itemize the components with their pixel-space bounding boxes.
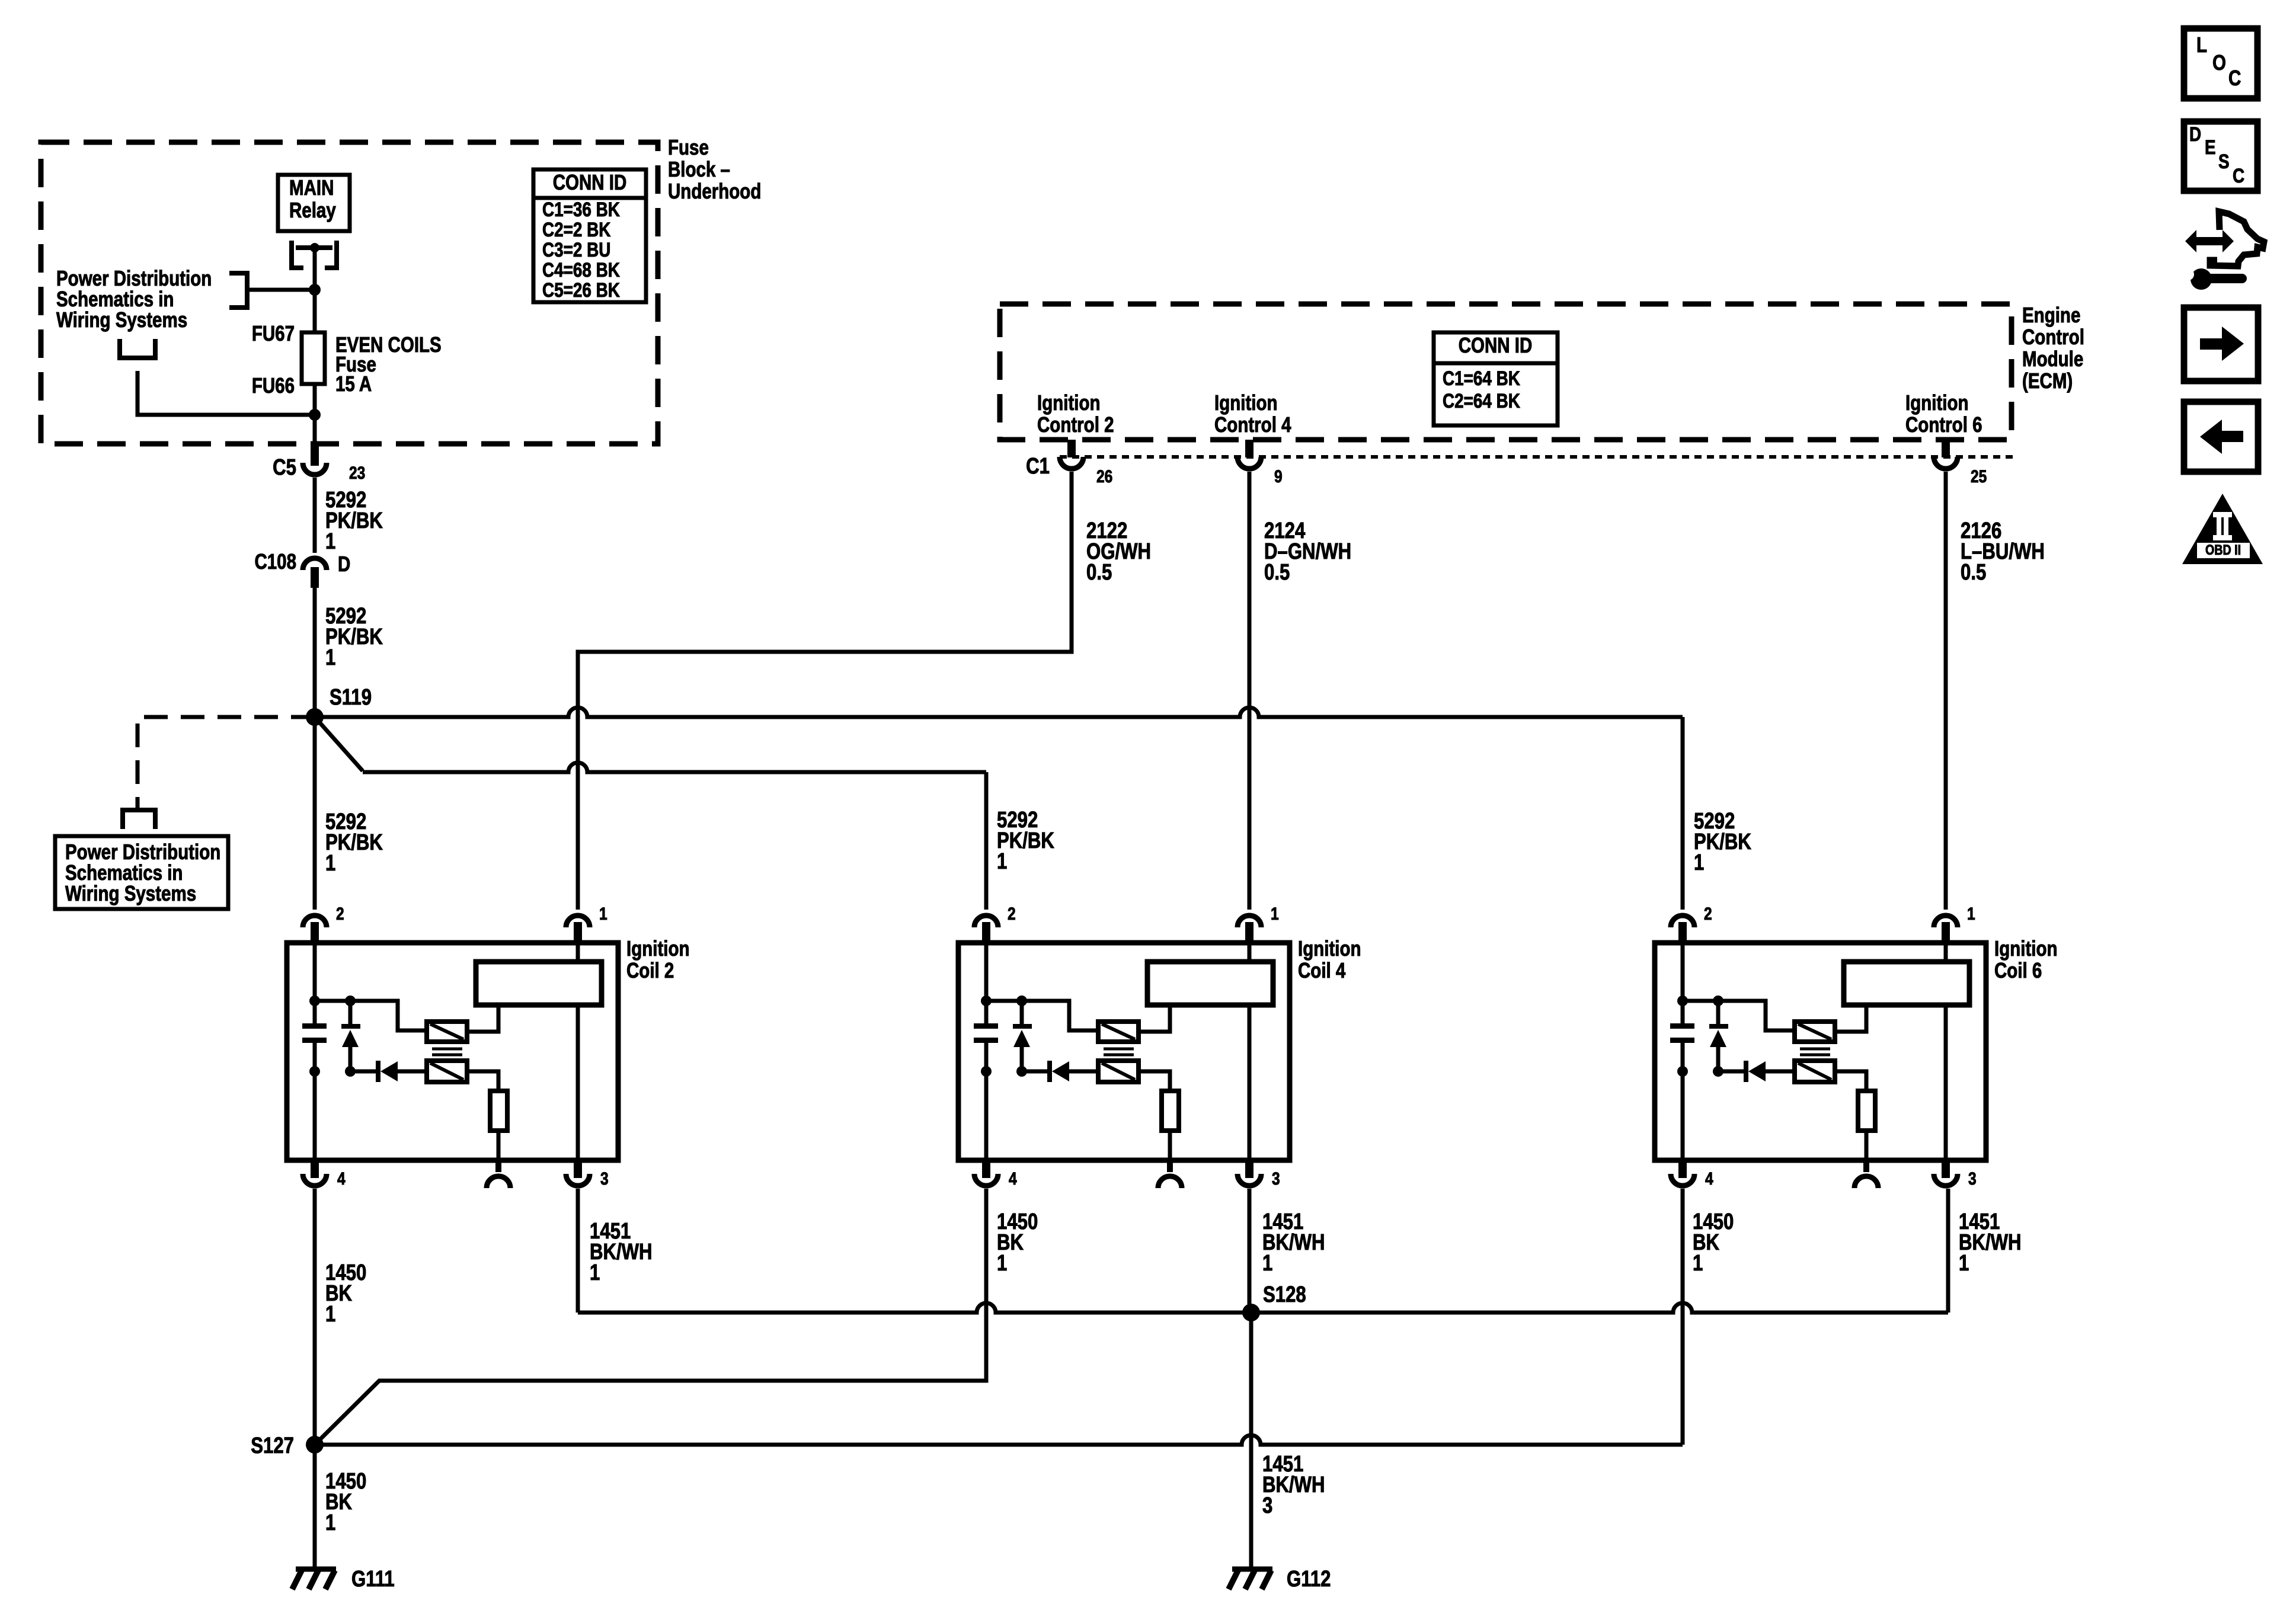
svg-text:Coil 4: Coil 4 [1298, 958, 1346, 982]
icon LOC [2184, 28, 2257, 98]
coil 2 right rail pin1 to secondary to pin3 [576, 943, 580, 962]
svg-text:Control 4: Control 4 [1214, 412, 1291, 436]
coil 4 pin 2 connector [974, 916, 998, 927]
coil 6 internal left rail [1681, 943, 1685, 1023]
svg-text:2: 2 [336, 904, 344, 924]
splice S119 [306, 708, 324, 726]
coil 4 avalanche diode [1020, 1001, 1024, 1024]
svg-text:1: 1 [997, 1251, 1007, 1276]
bracket to Power Distribution text [229, 273, 247, 308]
svg-text:Ignition: Ignition [626, 936, 690, 960]
svg-text:C2=64 BK: C2=64 BK [1443, 389, 1520, 412]
svg-text:C1=36 BK: C1=36 BK [542, 198, 620, 220]
svg-text:2: 2 [1008, 904, 1016, 924]
coil 4 pin 3 connector [1245, 1160, 1253, 1178]
ignition coil 2 box [287, 943, 618, 1160]
connector C5 pin 23 [311, 444, 319, 466]
bracket above boxed label [123, 810, 155, 829]
svg-text:1: 1 [325, 645, 335, 670]
coil 6 capacitor [1670, 1023, 1694, 1029]
wire S128 to ground G112 [1249, 1313, 1253, 1569]
svg-text:Coil 6: Coil 6 [1994, 958, 2042, 982]
coil 6 avalanche diode [1716, 1001, 1721, 1024]
svg-text:C: C [2228, 66, 2241, 89]
coil 4 diode [1022, 1070, 1047, 1074]
wire coil2 pin3 to S128 (1451 BK/WH) [576, 1189, 580, 1313]
coil 2 pin 1 connector [566, 916, 590, 927]
svg-text:C: C [2233, 164, 2244, 187]
ignition coil 6 box [1655, 943, 1986, 1160]
svg-text:1: 1 [325, 1510, 335, 1535]
wire coil4 pin4 down-left to S127 [315, 1189, 986, 1445]
svg-text:CONN ID: CONN ID [1459, 333, 1533, 357]
svg-text:C1=64 BK: C1=64 BK [1443, 367, 1520, 389]
coil 2 feedback winding [427, 1061, 467, 1082]
coil 4 unused terminal [1167, 1160, 1173, 1172]
coil 6 right rail pin1 to secondary to pin3 [1944, 943, 1948, 962]
coil 2 diode [350, 1070, 376, 1074]
icon vehicle data arrows and wrench [2185, 230, 2234, 252]
svg-text:Wiring Systems: Wiring Systems [65, 881, 196, 905]
svg-text:D: D [338, 552, 350, 575]
coil 4 feedback winding [1098, 1061, 1139, 1082]
coil 6 pin 1 connector [1934, 916, 1958, 927]
svg-text:S119: S119 [330, 685, 372, 710]
MAIN Relay box [278, 175, 350, 231]
svg-text:Coil 2: Coil 2 [626, 958, 674, 982]
coil 4 right rail pin1 to secondary to pin3 [1248, 943, 1252, 962]
coil 6 primary winding [1795, 1022, 1835, 1042]
svg-text:Control 2: Control 2 [1037, 412, 1114, 436]
wire coil4 pin3 to S128 [1248, 1189, 1252, 1313]
coil 4 primary winding [1098, 1022, 1139, 1042]
relay contact symbol [296, 245, 332, 250]
svg-text:Wiring Systems: Wiring Systems [56, 308, 187, 331]
svg-text:1: 1 [1967, 904, 1975, 924]
svg-text:FU67: FU67 [252, 321, 295, 345]
svg-text:C4=68 BK: C4=68 BK [542, 258, 620, 281]
coil 6 pin 2 connector [1671, 916, 1694, 927]
wire C108 to S119 [313, 588, 317, 717]
svg-text:3: 3 [1262, 1493, 1272, 1518]
coil 4 resistor [1139, 1071, 1170, 1091]
wire S127 to coil6 pin4 [315, 1435, 1683, 1445]
boxed label Power Distribution Schematics in Wiring Systems [55, 836, 228, 909]
ground G112 [1249, 1565, 1253, 1569]
coil 2 pin 4 connector [311, 1160, 319, 1178]
svg-text:Control 6: Control 6 [1905, 412, 1982, 436]
svg-text:0.5: 0.5 [1086, 560, 1112, 585]
coil 4 pin 1 connector [1237, 916, 1261, 927]
coil 6 feedback winding [1795, 1061, 1835, 1082]
coil 6 secondary winding [1844, 962, 1969, 1005]
wire ECM pin26 to coil2 pin1 (2122 OG/WH) [578, 472, 1072, 910]
svg-text:0.5: 0.5 [1961, 560, 1986, 585]
svg-text:26: 26 [1096, 466, 1112, 486]
coil 4 pin 4 connector [982, 1160, 990, 1178]
icon OBD II triangle [2182, 494, 2263, 564]
svg-text:15 A: 15 A [335, 372, 372, 395]
coil 2 capacitor [302, 1023, 327, 1029]
wire junction to lower bracket [137, 371, 315, 415]
coil 2 primary winding [427, 1022, 467, 1042]
svg-text:OBD II: OBD II [2205, 542, 2241, 558]
svg-text:FU66: FU66 [252, 373, 295, 397]
svg-text:C2=2 BK: C2=2 BK [542, 218, 611, 241]
coil 6 pin 4 connector [1678, 1160, 1687, 1178]
svg-text:Relay: Relay [289, 198, 336, 222]
coil 2 core [432, 1049, 462, 1055]
coil 6 internal junction dots [1677, 996, 1688, 1006]
icon back arrow [2184, 402, 2258, 472]
coil 2 avalanche diode [348, 1001, 353, 1024]
fuse block underhood dashed box [41, 142, 658, 444]
svg-text:S128: S128 [1263, 1282, 1306, 1307]
CONN ID table (ECM) [1434, 332, 1558, 425]
svg-text:4: 4 [337, 1169, 346, 1189]
wire C5 to C108 [313, 478, 317, 553]
svg-text:Ignition: Ignition [1298, 936, 1361, 960]
wire ECM pin9 to coil4 pin1 (2124 D-GN/WH) [1248, 472, 1252, 910]
coil 6 resistor [1835, 1071, 1866, 1091]
svg-text:9: 9 [1274, 466, 1283, 486]
svg-text:1: 1 [325, 1302, 335, 1327]
ignition coil 4 box [958, 943, 1290, 1160]
ground G111 [313, 1565, 317, 1569]
coil 4 wires to primary winding [986, 1001, 1098, 1030]
node: power distribution feed junction [309, 284, 321, 296]
svg-text:C5: C5 [273, 455, 296, 480]
svg-text:1: 1 [599, 904, 607, 924]
svg-text:S127: S127 [251, 1433, 294, 1458]
icon DESC [2184, 121, 2257, 191]
dashed wire S119 to power distribution ref [137, 717, 315, 809]
svg-text:4: 4 [1705, 1169, 1713, 1189]
svg-text:1: 1 [1959, 1251, 1969, 1276]
svg-text:2: 2 [1704, 904, 1712, 924]
svg-text:1: 1 [1694, 850, 1704, 875]
coil 6 unused terminal [1863, 1160, 1869, 1172]
svg-text:C108: C108 [254, 549, 296, 573]
coil 2 wires to primary winding [315, 1001, 427, 1030]
svg-text:25: 25 [1971, 466, 1987, 486]
coil 2 unused terminal [495, 1160, 501, 1172]
coil 6 diode [1718, 1070, 1744, 1074]
svg-text:4: 4 [1009, 1169, 1017, 1189]
svg-text:3: 3 [600, 1169, 609, 1189]
svg-text:CONN ID: CONN ID [553, 170, 627, 194]
coil 2 internal left rail [313, 943, 317, 1023]
ECM connector dotted line C1 [1060, 455, 2014, 459]
splice S128 [1242, 1304, 1260, 1321]
connector C108 pin D [303, 558, 327, 570]
wire S119 to ignition coil 2 pin 2 [313, 717, 317, 910]
coil 2 internal junction dots [309, 996, 320, 1006]
svg-text:Fuse: Fuse [668, 135, 709, 159]
svg-text:C1: C1 [1026, 454, 1050, 479]
svg-text:1: 1 [997, 849, 1007, 874]
svg-text:Ignition: Ignition [1905, 391, 1969, 414]
wire fuse to lower junction [313, 384, 317, 444]
coil 2 secondary winding [476, 962, 602, 1005]
svg-text:1: 1 [1262, 1251, 1272, 1276]
coil 2 pin 2 connector [303, 916, 327, 927]
wire S127 to ground G111 [313, 1445, 317, 1569]
svg-text:Ignition: Ignition [1994, 936, 2058, 960]
coil 4 secondary winding [1147, 962, 1273, 1005]
svg-text:Control: Control [2022, 325, 2084, 348]
icon forward arrow [2184, 308, 2258, 381]
svg-text:1: 1 [325, 851, 335, 876]
ECM dashed box [1000, 304, 2012, 440]
svg-text:1: 1 [325, 529, 335, 554]
ECM pin 26 connector [1067, 440, 1076, 457]
svg-text:Module: Module [2022, 347, 2083, 370]
svg-text:G111: G111 [351, 1567, 395, 1592]
coil 6 wires to primary winding [1683, 1001, 1795, 1030]
coil 4 internal junction dots [981, 996, 992, 1006]
svg-text:G112: G112 [1287, 1567, 1331, 1592]
wire coil2 pin4 to S127 (1450 BK) [313, 1189, 317, 1445]
fuse FU67/FU66 EVEN COILS 15A [302, 332, 325, 384]
svg-text:D: D [2189, 123, 2201, 145]
ECM pin 9 connector [1245, 440, 1253, 457]
ECM pin 25 connector [1942, 440, 1950, 457]
svg-text:3: 3 [1272, 1169, 1280, 1189]
coil 6 core [1800, 1049, 1830, 1055]
wire S119 diagonal to ignition coil 4 pin 2 [315, 717, 363, 771]
svg-text:E: E [2205, 136, 2216, 158]
svg-text:1: 1 [1693, 1251, 1703, 1276]
svg-text:O: O [2212, 50, 2226, 74]
svg-text:1: 1 [590, 1260, 600, 1285]
wire junction to bracket [247, 288, 315, 292]
wire S128 to coil6 pin3 [1251, 1303, 1948, 1313]
node: lower junction [309, 409, 321, 421]
bracket under Wiring Systems text [120, 339, 155, 358]
svg-text:MAIN: MAIN [289, 175, 334, 199]
svg-text:3: 3 [1968, 1169, 1977, 1189]
svg-text:Underhood: Underhood [668, 179, 761, 203]
svg-text:Engine: Engine [2022, 303, 2080, 327]
svg-text:1: 1 [1271, 904, 1279, 924]
coil 4 core [1104, 1049, 1134, 1055]
svg-text:0.5: 0.5 [1264, 560, 1290, 585]
CONN ID table (fuse block) [533, 169, 646, 302]
svg-text:C5=26 BK: C5=26 BK [542, 279, 620, 301]
coil 4 capacitor [974, 1023, 998, 1029]
coil 6 pin 3 connector [1942, 1160, 1950, 1178]
wire S119 to ignition coil 6 pin 2 (top horizontal) [315, 708, 1683, 717]
wire ECM pin25 to coil6 pin1 (2126 L-BU/WH) [1944, 472, 1948, 910]
wire relay to fuse [313, 248, 317, 332]
coil 2 pin 3 connector [574, 1160, 582, 1178]
svg-text:23: 23 [349, 463, 365, 483]
svg-text:C3=2 BU: C3=2 BU [542, 238, 610, 261]
svg-text:Ignition: Ignition [1037, 391, 1101, 414]
coil 2 resistor [467, 1071, 498, 1091]
svg-text:Block –: Block – [668, 157, 730, 181]
svg-text:L: L [2196, 33, 2207, 56]
svg-text:Ignition: Ignition [1214, 391, 1278, 414]
splice S127 [306, 1436, 324, 1454]
coil 4 internal left rail [984, 943, 989, 1023]
svg-text:(ECM): (ECM) [2022, 369, 2073, 392]
svg-text:S: S [2218, 150, 2230, 172]
